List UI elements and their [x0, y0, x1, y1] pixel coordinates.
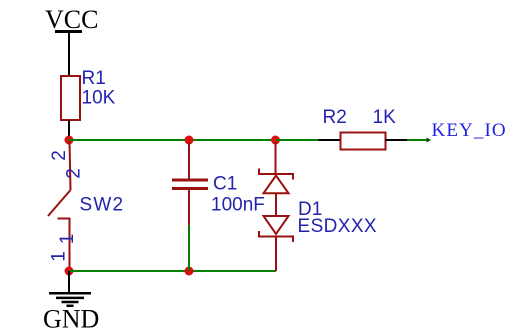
svg-text:VCC: VCC [45, 5, 98, 34]
R2 right pin [386, 139, 408, 141]
junction C1 bottom [185, 267, 194, 276]
junction D1 top [271, 136, 280, 145]
power net VCC [45, 5, 98, 34]
ground [49, 293, 91, 306]
wire R2 to KEY_IO [407, 139, 427, 141]
svg-text:2: 2 [64, 168, 85, 179]
wire end tick [427, 138, 432, 143]
svg-text:1K: 1K [373, 107, 397, 128]
svg-text:ESDXXX: ESDXXX [298, 216, 378, 237]
node B junction (bottom left) [65, 267, 74, 276]
wire top horizontal [69, 139, 276, 141]
capacitor C1 [172, 142, 208, 225]
switch SW2 [48, 141, 71, 271]
node A junction [65, 136, 74, 145]
svg-text:2: 2 [49, 150, 70, 161]
wire bottom horizontal [69, 270, 276, 272]
TVS diode D1 [259, 142, 293, 271]
wire R1 to node A [68, 120, 70, 140]
svg-text:C1: C1 [213, 174, 237, 195]
resistor R1 [61, 76, 80, 120]
svg-text:SW2: SW2 [80, 195, 125, 216]
wire VCC to R1 [68, 32, 70, 77]
svg-text:R1: R1 [82, 68, 106, 89]
svg-text:GND: GND [43, 305, 99, 334]
svg-text:10K: 10K [82, 88, 116, 109]
R2 left pin [319, 139, 341, 141]
wire node B to ground [68, 271, 70, 293]
svg-text:1: 1 [49, 251, 70, 262]
svg-text:KEY_IO: KEY_IO [432, 120, 507, 141]
svg-text:1: 1 [57, 234, 78, 245]
wire C1 to bottom [188, 225, 190, 271]
svg-text:R2: R2 [323, 107, 347, 128]
resistor R2 [341, 133, 386, 150]
wire D1 to R2 [276, 139, 319, 141]
svg-text:100nF: 100nF [211, 195, 265, 216]
junction C1 top [185, 136, 194, 145]
